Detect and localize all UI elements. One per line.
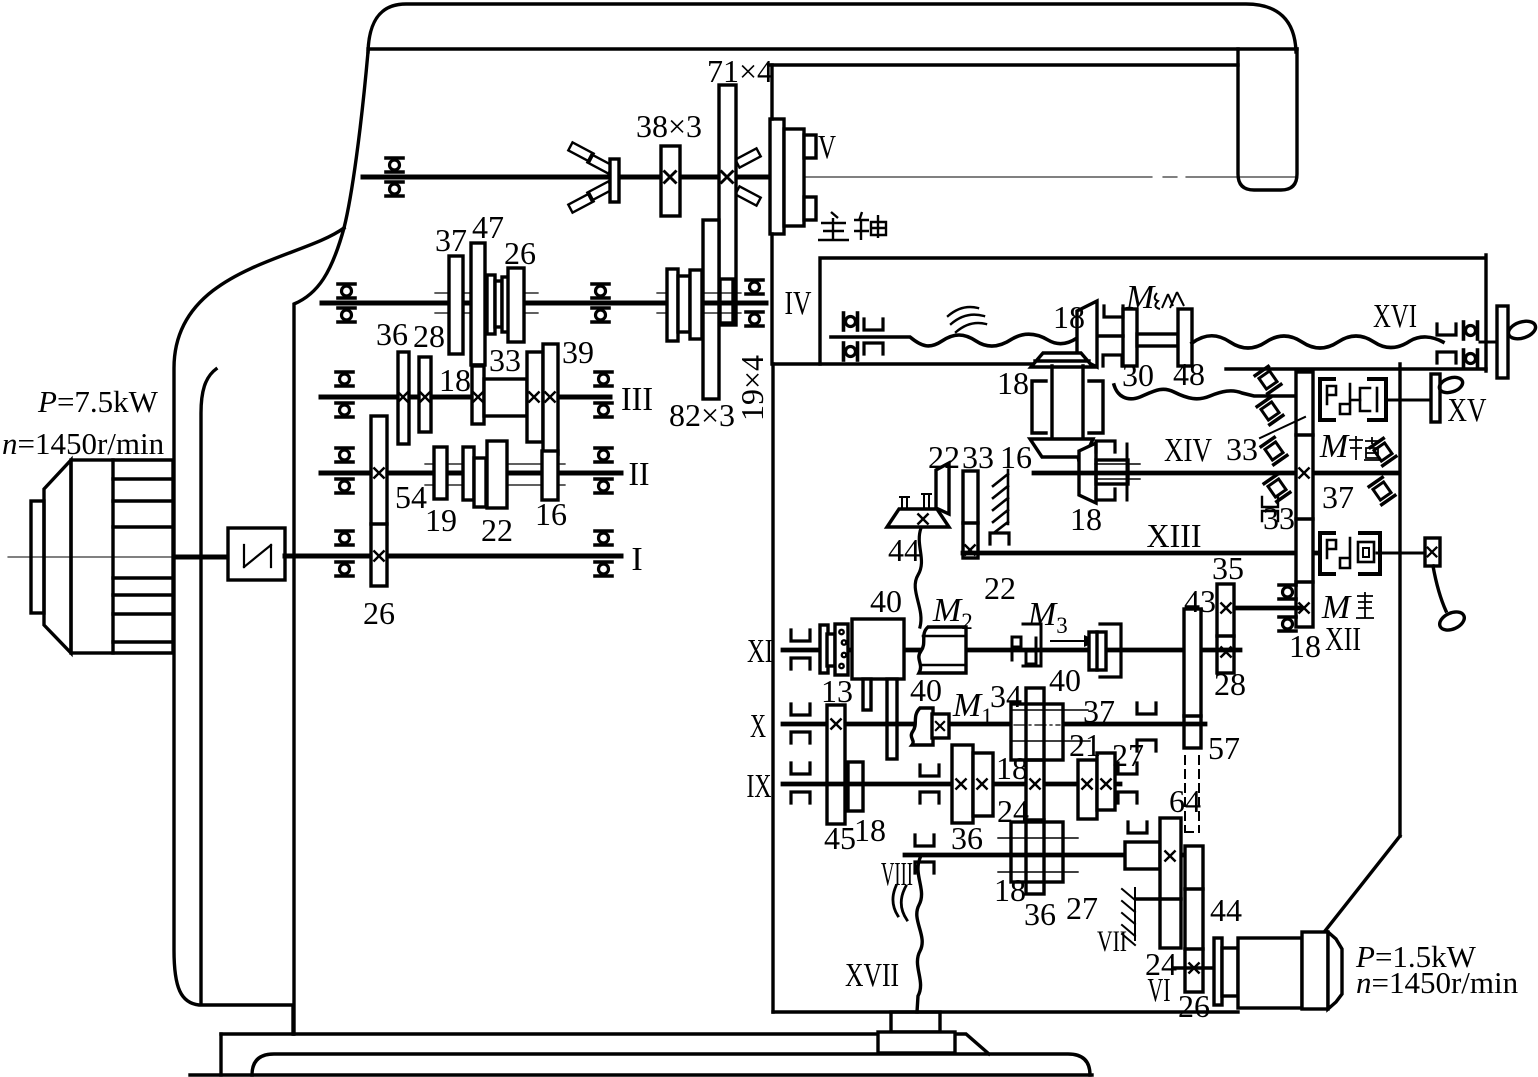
bracket M-zong upper <box>1104 306 1123 317</box>
svg-text:P=7.5kW: P=7.5kW <box>37 384 159 419</box>
bracket XIV lower <box>1096 489 1115 500</box>
key mark 39 <box>545 392 554 401</box>
divider 64 <box>1160 897 1181 900</box>
bearing XVI-in upper <box>844 313 858 330</box>
divider 35-28 <box>1217 634 1234 637</box>
fixed wall hatch 16 <box>993 470 1008 532</box>
feed box bottom <box>773 1010 1238 1013</box>
shift sleeve <box>1089 632 1106 670</box>
helical gear glyph L4 <box>1264 474 1290 501</box>
hanzi zhou of zhuzhou <box>854 212 886 240</box>
spring wavy to M2 <box>915 528 921 627</box>
hanzi zhu of zhuzhou <box>818 212 849 240</box>
key mark 35 <box>1221 603 1230 612</box>
bearing shaft V lower <box>386 182 403 196</box>
gear 18 on III <box>472 366 484 424</box>
gear 64 block <box>1160 818 1181 948</box>
svg-text:21: 21 <box>1069 727 1101 763</box>
feed box corner diagonal <box>1325 836 1400 931</box>
bearing I left upper <box>336 531 353 545</box>
shaft I line <box>312 554 621 559</box>
svg-text:M: M <box>1321 589 1352 626</box>
gear 39 on III <box>543 344 558 454</box>
sleeve block 33 <box>484 379 527 416</box>
column divider 1 <box>1026 758 1044 761</box>
svg-text:40: 40 <box>910 672 942 708</box>
cone pin right <box>922 494 931 508</box>
svg-text:44: 44 <box>888 532 920 568</box>
bed top line <box>221 1034 989 1054</box>
bevel 18 horizontal axis <box>1077 301 1097 367</box>
hub extension below 47 <box>473 365 483 419</box>
overload cone 44 body <box>887 509 949 527</box>
svg-text:36: 36 <box>1024 896 1056 932</box>
key mark crank box <box>1428 548 1437 557</box>
bearing I right upper <box>595 531 612 545</box>
svg-text:22: 22 <box>984 570 1016 606</box>
svg-text:24: 24 <box>997 793 1029 829</box>
motor pocket inner edge <box>201 369 216 1004</box>
svg-text:18: 18 <box>994 872 1026 908</box>
feed box right wall <box>1398 364 1401 836</box>
svg-text:1: 1 <box>981 704 993 729</box>
collar on II <box>463 447 474 500</box>
bracket IX left lower <box>791 792 810 803</box>
clutch M2 wavy sleeve <box>919 627 966 673</box>
coupling plate XI <box>827 634 835 666</box>
gear 47 on IV <box>471 243 485 365</box>
bearing IV left lower <box>338 308 355 322</box>
crank drop link <box>1433 566 1446 611</box>
bed plinth left edge <box>219 1034 222 1075</box>
bracket XVI-in upper <box>864 319 883 330</box>
motor M1 centerline <box>8 556 362 558</box>
belt groove marks right lower <box>735 186 760 205</box>
clutch M-chui outer right bracket <box>1360 533 1380 574</box>
motor2 shaft plate 2 <box>1222 948 1238 996</box>
shaft stub bevel to clutch <box>1098 334 1123 337</box>
key mark bar at XII <box>1299 603 1308 612</box>
svg-text:71×4: 71×4 <box>707 53 773 89</box>
gear cluster r2 on IV right <box>678 276 690 332</box>
svg-text:82×3: 82×3 <box>669 397 735 433</box>
bracket X mid upper <box>1137 703 1156 714</box>
svg-text:36: 36 <box>951 820 983 856</box>
gear 45 block <box>827 705 845 824</box>
bracket IX left upper <box>791 763 810 774</box>
svg-text:34: 34 <box>990 678 1022 714</box>
clutch M-zong right plate <box>1178 309 1192 366</box>
bearing IV left upper <box>338 284 355 298</box>
key mark 54 at II <box>374 468 383 477</box>
svg-text:36: 36 <box>376 316 408 352</box>
jaw clutch XIV bar <box>1126 444 1129 500</box>
clutch M-heng mid bracket <box>1360 388 1370 411</box>
key mark gear 71x4 <box>722 172 733 183</box>
belt groove marks left upper <box>568 142 593 161</box>
shaft XVI end <box>1480 341 1497 344</box>
collar b on IV <box>495 281 502 327</box>
belt groove marks right upper <box>735 148 760 167</box>
svg-text:II: II <box>629 456 650 493</box>
belt groove marks left upper2 <box>587 154 612 173</box>
belt groove marks left lower <box>568 193 593 212</box>
svg-text:28: 28 <box>1214 666 1246 702</box>
hanger bar 1 <box>863 679 871 710</box>
bar divider 1 <box>1296 433 1313 436</box>
key mark 64 <box>1165 851 1174 860</box>
clutch M-heng pin <box>1376 388 1379 411</box>
svg-text:64: 64 <box>1169 783 1201 819</box>
svg-text:XIV: XIV <box>1164 432 1212 469</box>
svg-text:16: 16 <box>535 496 567 532</box>
svg-text:40: 40 <box>1049 662 1081 698</box>
svg-text:18: 18 <box>1053 299 1085 335</box>
bearing I left lower <box>336 562 353 576</box>
spindle centerline <box>779 176 1297 178</box>
hanzi heng subscript <box>1349 436 1380 460</box>
bevel 18 on XIV <box>1079 443 1096 503</box>
wing gear 36-27 lower <box>1011 822 1063 882</box>
motor M1 body <box>71 460 113 653</box>
beam lower edge <box>368 47 1297 50</box>
clutch M2 inner lines <box>921 636 966 665</box>
key mark M1 box <box>936 722 944 730</box>
divider gear 54-26 <box>371 522 387 525</box>
svg-text:37: 37 <box>1083 693 1115 729</box>
svg-text:I: I <box>631 541 642 578</box>
pulley bar on V <box>610 159 619 202</box>
svg-text:33: 33 <box>1226 431 1258 467</box>
svg-text:M: M <box>952 687 983 724</box>
bearing I right lower <box>595 562 612 576</box>
bearing II right upper <box>595 448 612 462</box>
shaft X <box>783 722 1205 727</box>
belt drive symbol <box>244 545 271 567</box>
svg-text:III: III <box>621 381 653 418</box>
feed box left wall <box>771 364 774 1012</box>
bracket XI left lower <box>791 658 810 669</box>
motor M1 front plate <box>31 501 44 613</box>
clutch M-heng d glyph <box>1340 384 1350 414</box>
end plate XI <box>820 625 828 673</box>
leader line 33 <box>1260 417 1305 438</box>
svg-text:26: 26 <box>363 595 395 631</box>
shaft IX <box>783 782 1120 787</box>
spindle ear lower <box>804 197 816 220</box>
bearing II right lower <box>595 479 612 493</box>
clutch M-chui P glyph <box>1327 540 1336 558</box>
beam inner edge <box>771 63 1238 66</box>
svg-text:30: 30 <box>1122 357 1154 393</box>
bracket IX right upper <box>1118 763 1137 774</box>
svg-text:22: 22 <box>928 439 960 475</box>
gear 19 on II <box>434 447 447 499</box>
svg-text:35: 35 <box>1212 550 1244 586</box>
bearing IV mid lower <box>592 308 609 322</box>
bracket VIII left lower <box>915 862 934 873</box>
svg-text:54: 54 <box>395 479 427 515</box>
sleeve lines shaft IV right <box>657 293 741 313</box>
shaft XIV <box>1034 471 1399 476</box>
sleeve lines shaft II <box>425 464 565 485</box>
key mark bar at XIV <box>1299 468 1308 477</box>
spindle flange hub <box>784 129 804 226</box>
jaw clutch XIV sleeve <box>1096 460 1128 484</box>
spindle ear upper <box>804 135 816 158</box>
motor M2 nose <box>1328 932 1342 1009</box>
svg-text:39: 39 <box>562 334 594 370</box>
gear 26 on IV <box>508 268 524 342</box>
key mark pair b <box>977 779 986 788</box>
svg-text:XII: XII <box>1325 621 1361 658</box>
svg-text:57: 57 <box>1208 730 1240 766</box>
key mark 33 <box>529 392 538 401</box>
bearing XVI-out lower <box>1464 350 1478 367</box>
svg-text:XI: XI <box>747 633 773 670</box>
leveling jack step 2 <box>878 1032 955 1053</box>
clutch M-chui inner square <box>1363 548 1369 557</box>
svg-text:V: V <box>818 129 836 166</box>
gear 33 on III <box>527 352 543 442</box>
svg-text:M: M <box>932 592 963 629</box>
svg-text:XVI: XVI <box>1373 298 1417 335</box>
gear cluster r3 on IV right <box>690 270 702 339</box>
bracket pair near 33 <box>1262 497 1278 521</box>
bevel 18 vertical axis bottom <box>1030 439 1093 470</box>
key mark 18 <box>473 392 482 401</box>
shaft XV <box>1386 399 1431 402</box>
svg-text:27: 27 <box>1066 890 1098 926</box>
spindle flange column <box>770 119 784 234</box>
key mark 27b <box>1101 779 1110 788</box>
gear cluster r1 on IV right <box>667 269 678 341</box>
bearing III left lower <box>336 403 353 417</box>
svg-text:18: 18 <box>854 812 886 848</box>
bracket bevel shaft right <box>1089 381 1103 433</box>
motor M2 front <box>1302 932 1328 1009</box>
left body outline slant <box>344 52 368 228</box>
ground line <box>190 1073 1092 1076</box>
key mark 36a <box>956 779 965 788</box>
vertical gear bar <box>1296 372 1313 627</box>
svg-text:X: X <box>750 708 766 745</box>
shaft XI <box>783 648 1240 653</box>
gear 22-33 block on XIII <box>963 471 978 558</box>
lead screw 30-48 wavy <box>1114 385 1296 399</box>
bracket X mid lower <box>1137 740 1156 751</box>
motor shaft segment <box>176 555 228 560</box>
base pan outline <box>252 1054 1090 1075</box>
svg-text:45: 45 <box>824 820 856 856</box>
bar divider 3 <box>1296 580 1313 583</box>
telescopic accent arcs <box>948 307 986 332</box>
key mark cone <box>918 514 927 523</box>
bracket 64 upper <box>1128 822 1147 833</box>
bearing XII lower <box>1279 617 1296 631</box>
collar b on II <box>474 458 486 507</box>
leveling jack step 1 <box>891 1012 940 1032</box>
clutch M-heng outer right bracket <box>1369 379 1386 420</box>
divider 44 <box>1185 887 1203 890</box>
shaft VIII <box>905 853 1184 858</box>
motor2 shaft plate 1 <box>1214 938 1222 1005</box>
handle crank XVI <box>1506 318 1538 342</box>
double gear 54-26 on I <box>371 416 387 586</box>
bearing III right lower <box>595 403 612 417</box>
bracket IX right lower <box>1118 792 1137 803</box>
helical gear glyph L3 <box>1261 437 1287 464</box>
bevel 18 vertical axis top <box>1031 353 1093 367</box>
bracket XVI-out lower <box>1437 352 1456 363</box>
svg-text:47: 47 <box>472 209 504 245</box>
gear 44-26 block <box>1185 846 1203 992</box>
bracket X left upper <box>791 704 810 715</box>
gear 27a on IX <box>1078 760 1097 819</box>
shaft I from belt box <box>285 554 621 559</box>
lead screw XVI wavy <box>1192 336 1443 348</box>
bracket M-zong lower <box>1103 355 1122 366</box>
shaft VI <box>1174 966 1214 970</box>
belt groove marks left lower2 <box>587 181 612 200</box>
sliding column outline <box>1026 688 1044 894</box>
shaft XIII <box>963 551 1318 556</box>
svg-text:M: M <box>1027 596 1058 633</box>
gear 36 on III <box>398 352 409 444</box>
motor pocket outer curve <box>174 228 344 1034</box>
gear box 40 on XI <box>852 619 904 679</box>
lower wing sleeve lines <box>998 838 1078 872</box>
shaft XII <box>1234 606 1300 611</box>
bearing II left upper <box>336 448 353 462</box>
dashed shifted position 43-57 <box>1185 756 1199 832</box>
helical gear glyph R2 <box>1369 477 1395 504</box>
svg-text:37: 37 <box>435 222 467 258</box>
svg-text:22: 22 <box>481 512 513 548</box>
svg-text:XIII: XIII <box>1147 518 1202 555</box>
telescopic shaft wavy <box>831 334 1077 346</box>
svg-text:33: 33 <box>489 342 521 378</box>
svg-text:18: 18 <box>439 362 471 398</box>
svg-text:13: 13 <box>821 673 853 709</box>
bracket below hatch <box>990 533 1009 544</box>
clutch M-heng outer left bracket <box>1320 379 1334 420</box>
svg-text:IX: IX <box>747 768 772 805</box>
key mark 45 <box>831 719 840 728</box>
bearing III right upper <box>595 372 612 386</box>
svg-text:3: 3 <box>1056 613 1068 638</box>
bearing II left lower <box>336 479 353 493</box>
svg-text:XVII: XVII <box>845 957 899 994</box>
motor M1 bell housing <box>44 460 71 653</box>
key mark 36 <box>398 392 407 401</box>
clutch M1 wavy <box>911 708 933 745</box>
feed area top box <box>820 255 1486 371</box>
hanger bar 2 <box>887 679 897 759</box>
motor M1 fin block <box>113 460 173 653</box>
vertical bevel shaft lines <box>1052 366 1083 440</box>
crank handle XIII <box>1437 608 1467 633</box>
svg-text:48: 48 <box>1173 356 1205 392</box>
bearing IV right upper <box>746 280 763 294</box>
bearing III left upper <box>336 372 353 386</box>
clutch M-heng shaft link <box>1352 399 1360 402</box>
key mark 28 <box>1221 647 1230 656</box>
sliding jaw on VIII <box>1125 842 1160 869</box>
svg-text:XV: XV <box>1448 392 1487 429</box>
shaft V spindle <box>363 175 779 180</box>
gear 28 on III <box>419 357 431 432</box>
bearing IV mid upper <box>592 284 609 298</box>
bracket IX mid lower <box>920 792 939 803</box>
arrow to sleeve <box>1051 640 1085 642</box>
XVII accent arcs <box>893 886 907 920</box>
arrow head <box>1084 635 1098 647</box>
key mark 27a <box>1082 779 1091 788</box>
handwheel hub XV <box>1431 374 1440 422</box>
wing centerline dashes <box>1014 725 1060 855</box>
fixed wall hatch VII <box>1122 888 1135 945</box>
wing gear 37-21 <box>1011 704 1063 760</box>
svg-text:43: 43 <box>1184 583 1216 619</box>
divider 26 <box>1185 947 1203 950</box>
gear 35-28 block <box>1217 584 1234 673</box>
svg-text:M: M <box>1125 279 1156 316</box>
shaft XIII right seg <box>1377 552 1425 555</box>
machine body top beam outline <box>368 4 1296 52</box>
svg-text:38×3: 38×3 <box>636 108 702 144</box>
bearing XII upper <box>1279 585 1296 599</box>
svg-text:33: 33 <box>1263 500 1295 536</box>
svg-text:19×4: 19×4 <box>734 355 770 421</box>
svg-text:37: 37 <box>1322 479 1354 515</box>
svg-text:40: 40 <box>870 583 902 619</box>
svg-text:44: 44 <box>1210 892 1242 928</box>
ratchet pins <box>838 629 847 670</box>
belt drive box <box>228 528 285 580</box>
gear 16 on II <box>542 451 558 500</box>
svg-text:VII: VII <box>1097 925 1127 958</box>
bracket XIV upper <box>1096 441 1115 452</box>
shaft III <box>321 395 610 400</box>
overload cone 44 bevel <box>936 463 949 514</box>
divider 43-57 <box>1184 714 1201 717</box>
ratchet plate 13 <box>835 624 848 675</box>
gear 43-57 <box>1184 609 1201 748</box>
handwheel XV <box>1437 375 1464 396</box>
hanzi chui subscript <box>1356 592 1374 618</box>
bearing IV right lower <box>746 312 763 326</box>
clutch M-chui d glyph <box>1340 538 1350 568</box>
gear 71x4 on V <box>719 85 736 325</box>
gear 36a on IX <box>952 745 973 823</box>
bearing XVI-in lower <box>844 343 858 360</box>
svg-text:27: 27 <box>1112 737 1144 773</box>
svg-text:16: 16 <box>1000 439 1032 475</box>
bracket IX mid upper <box>920 765 939 776</box>
svg-text:18: 18 <box>996 750 1028 786</box>
svg-text:28: 28 <box>413 318 445 354</box>
svg-text:18: 18 <box>1070 501 1102 537</box>
key mark column IX <box>1030 779 1039 788</box>
bracket sleeve <box>1100 624 1121 677</box>
clutch M1 box <box>932 714 949 738</box>
bearing XVI-out upper <box>1464 322 1478 339</box>
shift sleeve divider <box>1095 632 1098 670</box>
svg-text:19: 19 <box>425 502 457 538</box>
clutch M-zong left plate <box>1123 309 1137 366</box>
bracket VIII left upper <box>915 835 934 846</box>
